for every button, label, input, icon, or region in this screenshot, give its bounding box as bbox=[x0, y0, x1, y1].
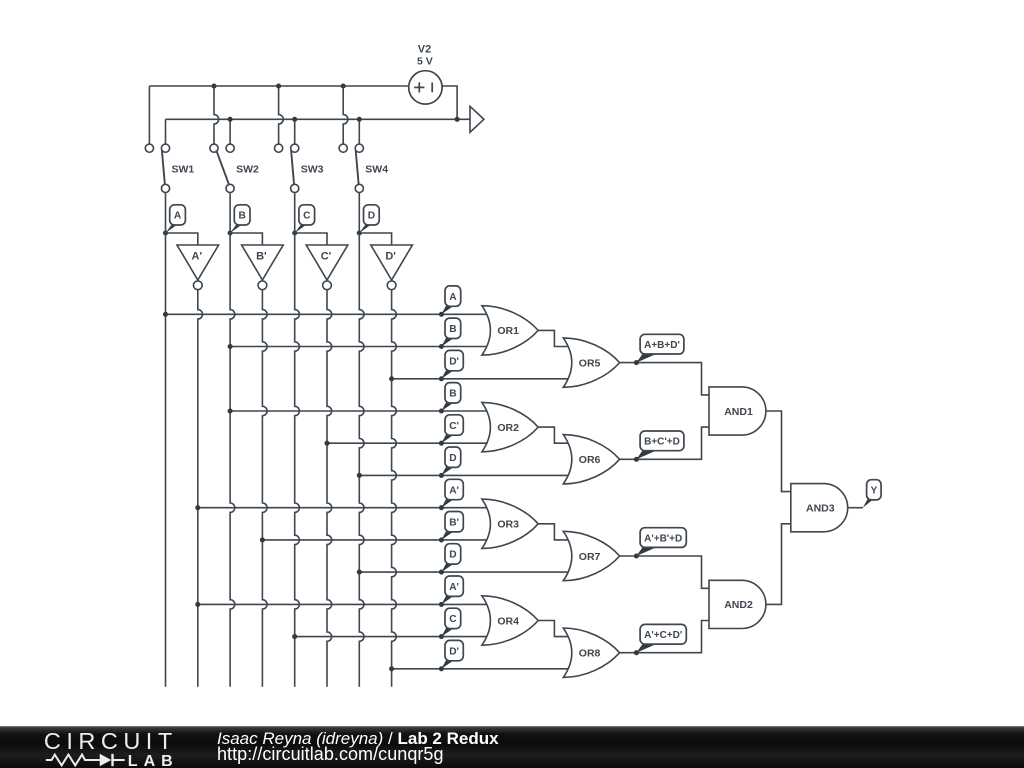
inverter A' bbox=[177, 245, 219, 290]
wire switch SW2 to node B bbox=[229, 193, 231, 234]
svg-text:OR5: OR5 bbox=[579, 357, 601, 369]
wire OR5 output to AND1 bbox=[620, 363, 710, 395]
switch SW4 bbox=[339, 144, 363, 192]
wire AND3 output bbox=[847, 507, 863, 509]
switch SW2 bbox=[210, 144, 234, 192]
wire top supply rail bbox=[149, 85, 408, 87]
svg-text:V2: V2 bbox=[418, 44, 431, 56]
wire OR8 output to AND2 bbox=[620, 621, 710, 653]
svg-text:D: D bbox=[368, 211, 375, 222]
junction row 11 at column C bbox=[292, 634, 297, 639]
svg-text:D': D' bbox=[449, 646, 459, 657]
junction row 3 at column D' bbox=[389, 376, 394, 381]
svg-text:AND2: AND2 bbox=[724, 599, 753, 611]
svg-text:A: A bbox=[449, 292, 457, 303]
svg-text:AND3: AND3 bbox=[806, 503, 835, 515]
node flag B (row 4) bbox=[441, 402, 454, 411]
wire to inverter D' input bbox=[359, 233, 391, 245]
OR gate OR4 bbox=[482, 596, 538, 645]
svg-text:C': C' bbox=[449, 421, 459, 432]
wire second rail bbox=[166, 118, 471, 120]
node flag A+B+D' bbox=[636, 353, 658, 363]
junction OR8 output bbox=[634, 650, 639, 655]
wire switch SW4 to node D bbox=[358, 193, 360, 234]
wire OR4 output to OR8 input bbox=[538, 621, 568, 637]
svg-text:D: D bbox=[449, 550, 456, 561]
junction on top rail bbox=[341, 83, 346, 88]
svg-text:Y: Y bbox=[871, 486, 878, 497]
svg-text:C: C bbox=[449, 614, 457, 625]
inverter D' bbox=[371, 245, 413, 290]
node flag B bbox=[230, 224, 242, 233]
svg-text:AND1: AND1 bbox=[724, 406, 753, 418]
wire row D' (row 12) bbox=[392, 668, 569, 670]
wire row B (row 4) bbox=[230, 410, 487, 412]
wire OR1 output to OR5 input bbox=[538, 330, 568, 346]
wire row D' (row 3) bbox=[392, 378, 569, 380]
junction row 12 flag anchor bbox=[439, 666, 444, 671]
junction row 4 at column B bbox=[228, 408, 233, 413]
svg-text:SW2: SW2 bbox=[236, 163, 259, 175]
svg-text:OR7: OR7 bbox=[579, 551, 601, 563]
svg-text:A+B+D': A+B+D' bbox=[644, 340, 680, 351]
junction row 11 flag anchor bbox=[439, 634, 444, 639]
junction on top rail bbox=[276, 83, 281, 88]
wire drop to SW3 right terminal bbox=[294, 119, 296, 144]
wire bus column C bbox=[295, 233, 300, 687]
wire drop to SW4 left terminal bbox=[343, 86, 348, 144]
svg-text:A': A' bbox=[449, 582, 459, 593]
OR gate OR8 bbox=[563, 628, 619, 677]
wire drop to SW3 left terminal bbox=[279, 86, 284, 144]
svg-text:C': C' bbox=[321, 251, 332, 263]
junction row 1 flag anchor bbox=[439, 312, 444, 317]
node flag Y bbox=[863, 499, 874, 508]
AND gate AND1 bbox=[709, 387, 766, 435]
junction at V2 drop bbox=[455, 117, 460, 122]
CircuitLab logo bbox=[30, 726, 220, 768]
junction row 4 flag anchor bbox=[439, 408, 444, 413]
wire AND1 output to AND3 bbox=[766, 411, 792, 492]
svg-text:A'+C+D': A'+C+D' bbox=[644, 630, 682, 641]
OR gate OR3 bbox=[482, 499, 538, 548]
svg-text:CIRCUIT: CIRCUIT bbox=[44, 728, 178, 754]
svg-text:D': D' bbox=[385, 251, 396, 263]
junction node C tap bbox=[292, 230, 297, 235]
node flag D bbox=[359, 224, 371, 233]
wire switch SW3 to node C bbox=[294, 193, 296, 234]
AND gate AND3 bbox=[791, 484, 848, 532]
wire row D (row 6) bbox=[359, 474, 568, 476]
wire bus column B' bbox=[262, 290, 267, 687]
svg-text:B: B bbox=[449, 389, 456, 400]
logo resistor-diode symbol bbox=[46, 755, 100, 766]
node flag A bbox=[166, 224, 178, 233]
wire bus column A bbox=[165, 233, 167, 687]
svg-text:A': A' bbox=[449, 485, 459, 496]
wire row D (row 9) bbox=[359, 571, 568, 573]
junction row 10 at column A' bbox=[195, 602, 200, 607]
wire OR3 output to OR7 input bbox=[538, 524, 568, 540]
junction row 1 at column A bbox=[163, 312, 168, 317]
wire bus column A' bbox=[198, 290, 203, 687]
wire row C (row 11) bbox=[295, 636, 487, 638]
wire row B (row 2) bbox=[230, 346, 487, 348]
wire bus column B bbox=[230, 233, 235, 687]
wire drop to SW2 left terminal bbox=[214, 86, 219, 144]
node flag A (row 1) bbox=[441, 305, 454, 314]
svg-text:OR1: OR1 bbox=[497, 325, 519, 337]
svg-text:B: B bbox=[239, 211, 246, 222]
node flag D (row 9) bbox=[441, 563, 454, 572]
svg-text:OR3: OR3 bbox=[497, 519, 519, 531]
junction on second rail bbox=[292, 117, 297, 122]
junction on top rail bbox=[211, 83, 216, 88]
svg-text:D: D bbox=[449, 453, 456, 464]
credit text line 1 bbox=[217, 730, 499, 747]
svg-text:OR6: OR6 bbox=[579, 454, 601, 466]
junction row 3 flag anchor bbox=[439, 376, 444, 381]
svg-text:OR4: OR4 bbox=[497, 615, 519, 627]
wire row B' (row 8) bbox=[262, 539, 487, 541]
svg-text:SW4: SW4 bbox=[365, 163, 388, 175]
switch SW3 bbox=[275, 144, 299, 192]
wire to inverter B' input bbox=[230, 233, 262, 245]
wire row A' (row 7) bbox=[198, 507, 487, 509]
junction row 6 flag anchor bbox=[439, 473, 444, 478]
inverter C' bbox=[306, 245, 348, 290]
junction node B tap bbox=[228, 230, 233, 235]
wire switch SW1 to node A bbox=[165, 193, 167, 234]
junction row 2 at column B bbox=[228, 344, 233, 349]
junction row 5 flag anchor bbox=[439, 441, 444, 446]
OR gate OR2 bbox=[482, 402, 538, 451]
node flag B' (row 8) bbox=[441, 531, 454, 540]
svg-text:SW3: SW3 bbox=[301, 163, 324, 175]
junction row 7 at column A' bbox=[195, 505, 200, 510]
junction OR6 output bbox=[634, 457, 639, 462]
port symbol (triangle) bbox=[470, 106, 484, 132]
node flag D' (row 12) bbox=[441, 660, 454, 669]
OR gate OR5 bbox=[563, 338, 619, 387]
wire to inverter C' input bbox=[295, 233, 327, 245]
wire drop to SW1 left terminal bbox=[148, 86, 150, 144]
node flag D (row 6) bbox=[441, 467, 454, 476]
node flag C' (row 5) bbox=[441, 434, 454, 443]
voltage source V2 5V bbox=[409, 71, 442, 104]
junction OR5 output bbox=[634, 360, 639, 365]
wire row C' (row 5) bbox=[327, 442, 487, 444]
wire OR2 output to OR6 input bbox=[538, 427, 568, 443]
svg-text:OR2: OR2 bbox=[497, 422, 519, 434]
svg-text:C: C bbox=[303, 211, 311, 222]
junction row 9 flag anchor bbox=[439, 570, 444, 575]
node flag A' (row 7) bbox=[441, 499, 454, 508]
wire drop to SW1 right terminal bbox=[165, 119, 167, 144]
wire bus column D' bbox=[392, 290, 397, 687]
wire drop to SW2 right terminal bbox=[229, 119, 231, 144]
junction row 12 at column D' bbox=[389, 666, 394, 671]
node flag B (row 2) bbox=[441, 338, 454, 347]
svg-text:B': B' bbox=[256, 251, 267, 263]
svg-text:SW1: SW1 bbox=[172, 163, 195, 175]
node flag D' (row 3) bbox=[441, 370, 454, 379]
svg-text:B': B' bbox=[449, 518, 459, 529]
wire OR7 output to AND2 bbox=[620, 556, 710, 588]
AND gate AND2 bbox=[709, 580, 766, 628]
junction row 6 at column D bbox=[357, 473, 362, 478]
svg-text:B: B bbox=[449, 324, 456, 335]
node flag A'+B'+D bbox=[636, 547, 658, 557]
svg-text:A': A' bbox=[192, 251, 203, 263]
wire row A (row 1) bbox=[166, 313, 488, 315]
OR gate OR7 bbox=[563, 531, 619, 580]
junction node A tap bbox=[163, 230, 168, 235]
node flag A' (row 10) bbox=[441, 596, 454, 605]
OR gate OR6 bbox=[563, 435, 619, 484]
wire AND2 output to AND3 bbox=[766, 524, 792, 605]
wire OR6 output to AND1 bbox=[620, 427, 710, 459]
svg-text:A'+B'+D: A'+B'+D bbox=[644, 533, 682, 544]
node flag C (row 11) bbox=[441, 628, 454, 637]
credit text line 2 bbox=[217, 745, 444, 763]
junction row 2 flag anchor bbox=[439, 344, 444, 349]
junction OR7 output bbox=[634, 553, 639, 558]
junction on second rail bbox=[357, 117, 362, 122]
svg-text:D': D' bbox=[449, 356, 459, 367]
junction row 7 flag anchor bbox=[439, 505, 444, 510]
wire bus column D bbox=[359, 233, 364, 687]
junction row 8 flag anchor bbox=[439, 537, 444, 542]
OR gate OR1 bbox=[482, 306, 538, 355]
svg-text:B+C'+D: B+C'+D bbox=[644, 437, 680, 448]
node flag A'+C+D' bbox=[636, 643, 658, 653]
node flag B+C'+D bbox=[636, 450, 658, 460]
junction row 8 at column B' bbox=[260, 537, 265, 542]
wire V2 right drop bbox=[442, 86, 457, 119]
junction row 5 at column C' bbox=[324, 441, 329, 446]
wire bus column C' bbox=[327, 290, 332, 687]
svg-text:A: A bbox=[174, 211, 182, 222]
svg-text:OR8: OR8 bbox=[579, 648, 601, 660]
svg-text:5 V: 5 V bbox=[417, 55, 433, 67]
wire drop to SW4 right terminal bbox=[358, 119, 360, 144]
junction row 9 at column D bbox=[357, 570, 362, 575]
junction node D tap bbox=[357, 230, 362, 235]
svg-text:LAB: LAB bbox=[128, 753, 179, 768]
junction on second rail bbox=[228, 117, 233, 122]
node flag C bbox=[295, 224, 307, 233]
wire to inverter A' input bbox=[166, 233, 198, 245]
junction row 10 flag anchor bbox=[439, 602, 444, 607]
switch SW1 bbox=[145, 144, 169, 192]
wire row A' (row 10) bbox=[198, 603, 487, 605]
inverter B' bbox=[242, 245, 284, 290]
